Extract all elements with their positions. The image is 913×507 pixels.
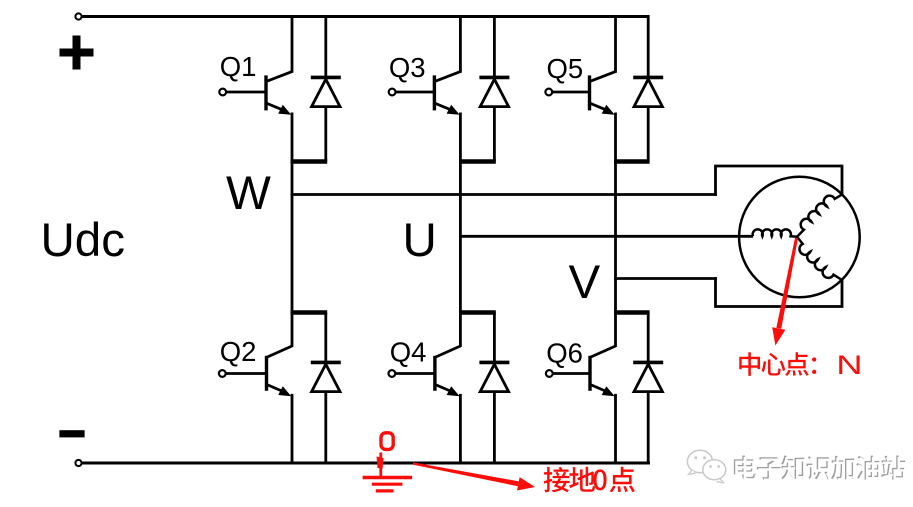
transistor Q1 bbox=[264, 75, 267, 110]
svg-text:Q3: Q3 bbox=[389, 52, 426, 83]
wire D2 cathode to junction bbox=[324, 313, 327, 363]
wire junction bar Q6/diode bbox=[614, 310, 650, 315]
transistor Q4 bbox=[433, 356, 436, 391]
label 0 at ground node bbox=[381, 433, 393, 450]
wire phase node down to Q6 collector junction bbox=[614, 279, 617, 348]
wire leg3 junction to node V bbox=[614, 162, 617, 280]
diode D3 freewheeling for Q3 bbox=[479, 76, 509, 80]
wire D3 cathode to DC+ rail bbox=[493, 15, 496, 77]
wire bottom DC- rail bbox=[82, 462, 650, 465]
wire D3 anode to junction bbox=[493, 107, 496, 162]
motor M stator circle bbox=[739, 177, 860, 298]
transistor Q6 bbox=[588, 356, 591, 391]
transistor Q5 bbox=[588, 75, 591, 110]
wire D1 anode to junction bbox=[324, 107, 327, 162]
watermark logo speech bubbles bbox=[687, 450, 712, 473]
wire junction bar Q1/diode bbox=[291, 159, 328, 164]
wire junction bar Q5/diode bbox=[614, 159, 650, 164]
wire Q2 emitter to DC- rail bbox=[291, 394, 294, 463]
wire Q5 emitter down to junction bbox=[614, 113, 617, 164]
wire Q5 collector to DC+ rail bbox=[614, 15, 617, 73]
svg-text:Q5: Q5 bbox=[547, 53, 584, 84]
svg-text:Udc: Udc bbox=[41, 214, 125, 267]
svg-text:N: N bbox=[836, 349, 862, 379]
diode D1 freewheeling for Q1 bbox=[311, 76, 341, 80]
node DC+ terminal bbox=[75, 13, 81, 19]
wire D4 cathode to junction bbox=[493, 313, 496, 363]
svg-text:Q4: Q4 bbox=[390, 336, 427, 367]
wire phase node down to Q4 collector junction bbox=[459, 236, 462, 347]
wire phase node down to Q2 collector junction bbox=[291, 195, 294, 348]
wire D4 anode to DC- rail bbox=[493, 392, 496, 463]
wire junction bar Q2/diode bbox=[291, 310, 328, 315]
inductor winding V phase bbox=[797, 237, 842, 280]
diode D5 freewheeling for Q5 bbox=[633, 76, 663, 80]
transistor Q3 bbox=[433, 75, 436, 110]
wire D1 cathode to DC+ rail bbox=[324, 15, 327, 77]
annotation arrow to ground 0 point bbox=[413, 462, 519, 486]
node DC- terminal bbox=[75, 460, 81, 466]
wire D6 anode to DC- rail bbox=[647, 392, 650, 463]
label - polarity bbox=[59, 430, 84, 437]
ground junction blob bbox=[377, 457, 384, 470]
diode D2 freewheeling for Q2 bbox=[311, 361, 341, 365]
wire node U phase line to motor bbox=[459, 235, 753, 238]
svg-text:Q6: Q6 bbox=[546, 337, 583, 368]
wire Q1 collector to DC+ rail bbox=[291, 15, 294, 73]
svg-text:W: W bbox=[226, 167, 271, 220]
wire W lead-in rectangle to motor top bbox=[716, 166, 843, 196]
wire leg2 junction to node U bbox=[459, 162, 462, 238]
diode D6 freewheeling for Q6 bbox=[633, 361, 663, 365]
diode D4 freewheeling for Q4 bbox=[479, 361, 509, 365]
inductor winding W phase bbox=[797, 195, 842, 237]
wire Q4 emitter to DC- rail bbox=[459, 394, 462, 463]
inductor winding U phase bbox=[753, 229, 797, 236]
watermark text 电子知识加油站 bbox=[734, 456, 756, 480]
wire node W phase line to motor bbox=[291, 193, 717, 196]
label + polarity bbox=[60, 36, 94, 70]
wire junction bar Q4/diode bbox=[459, 310, 496, 315]
wire Q1 emitter down to junction bbox=[291, 113, 294, 164]
svg-text:U: U bbox=[403, 214, 437, 267]
label 接地0点 bbox=[544, 467, 570, 493]
annotation arrow to neutral point N bbox=[776, 238, 798, 329]
wire D5 anode to junction bbox=[647, 107, 650, 162]
wire Q3 emitter down to junction bbox=[459, 113, 462, 164]
wire junction bar Q3/diode bbox=[459, 159, 496, 164]
wire D6 cathode to junction bbox=[647, 313, 650, 363]
wire D2 anode to DC- rail bbox=[324, 392, 327, 463]
wire top DC+ rail bbox=[82, 15, 649, 18]
wire Q3 collector to DC+ rail bbox=[459, 15, 462, 73]
wire Q6 emitter to DC- rail bbox=[614, 394, 617, 463]
svg-text:V: V bbox=[569, 256, 601, 309]
svg-text:Q1: Q1 bbox=[220, 51, 257, 82]
wire D5 cathode to DC+ rail bbox=[647, 15, 650, 77]
wire leg1 junction to node W bbox=[291, 162, 294, 196]
wire V lead-in rectangle to motor bottom bbox=[716, 277, 843, 306]
svg-text:Q2: Q2 bbox=[220, 336, 257, 367]
label neutral point 中心点：N bbox=[739, 352, 760, 376]
wire node V phase line to motor bbox=[614, 277, 717, 280]
ground symbol (red) bbox=[379, 453, 382, 478]
transistor Q2 bbox=[265, 356, 268, 391]
